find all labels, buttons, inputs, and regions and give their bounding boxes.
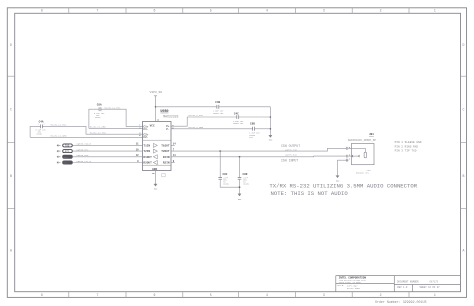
svg-text:Order Number: 329992-001US: Order Number: 329992-001US [375, 300, 426, 304]
svg-text:RS232_C2_NEG: RS232_C2_NEG [51, 135, 67, 138]
svg-text:V-: V- [166, 128, 170, 131]
svg-text:U0B0: U0B0 [160, 110, 168, 114]
wire RS232_C2_NEG to pin 5 [30, 136, 142, 138]
ground symbol jack sleeve [336, 176, 339, 178]
connector JB1 audio jack box [351, 144, 374, 165]
svg-text:15: 15 [152, 172, 155, 175]
transceiver R1 buffer [153, 155, 157, 159]
wire C4A to RS232_C2_POS to pin 4 [43, 126, 143, 134]
svg-text:UART0_TXD_R: UART0_TXD_R [77, 143, 92, 146]
jack pin 3 contact symbol [346, 155, 348, 158]
svg-text:T1IN: T1IN [143, 145, 150, 148]
op-amp U0B0 IC body MAX3232 [143, 122, 172, 171]
wire C8D bottom to ground [239, 179, 241, 194]
ground net labels [154, 138, 340, 201]
svg-text:GND: GND [152, 168, 157, 171]
svg-text:4: 4 [266, 293, 268, 297]
border zone ticks right [461, 76, 467, 208]
wire V+ pin 2 to RS232_V_POS line [171, 117, 237, 126]
ground symbol U0B0 [154, 184, 157, 186]
wire T2OUT pin 7 to jack ring [171, 148, 346, 151]
svg-text:A: A [10, 249, 12, 253]
svg-text:UART0_RXD: UART0_RXD [77, 154, 90, 157]
svg-text:R2OUT: R2OUT [143, 162, 152, 165]
note box near pin 15 [162, 174, 165, 177]
capacitor C8A body [99, 107, 101, 111]
ground symbol bypass caps [269, 135, 272, 137]
wire C4A left loop [30, 126, 40, 137]
svg-text:UART0_RXD: UART0_RXD [285, 154, 298, 157]
arrow in 1 [57, 144, 60, 146]
svg-text:RS232_C2_POS: RS232_C2_POS [90, 132, 106, 135]
border zone ticks bottom [69, 292, 409, 298]
wire ring inside jack [348, 148, 365, 152]
transceiver T1 buffer [153, 143, 157, 147]
svg-text:RS232_V_NEG: RS232_V_NEG [189, 126, 204, 129]
svg-text:3: 3 [323, 293, 325, 297]
svg-text:C8B: C8B [250, 122, 255, 125]
capacitor C4A body [41, 125, 43, 129]
arrow out 3 [57, 156, 60, 158]
svg-text:RS232_C1_POS: RS232_C1_POS [105, 107, 121, 110]
svg-text:6: 6 [153, 293, 155, 297]
svg-text:7: 7 [96, 9, 98, 13]
svg-text:GND: GND [269, 138, 273, 141]
svg-text:B: B [10, 174, 12, 178]
svg-text:T2OUT: T2OUT [161, 150, 170, 153]
jack contact chevron 2 [358, 155, 359, 157]
jack pin 1 contact symbol [346, 159, 348, 162]
svg-text:TX/RX RS-232 UTILIZING 3.5MM A: TX/RX RS-232 UTILIZING 3.5MM AUDIO CONNE… [269, 183, 417, 190]
wire down to capacitor C8D [239, 157, 241, 178]
wire C4B to ground drop [219, 106, 271, 108]
svg-text:T2IN: T2IN [143, 150, 150, 153]
svg-text:14: 14 [173, 143, 176, 146]
junction cap commons [239, 186, 241, 188]
wire V- pin 6 RS232_V_NEG line [171, 128, 253, 130]
connector port tag UART0_RXD_R [63, 155, 73, 159]
svg-text:7: 7 [96, 293, 98, 297]
svg-text:3: 3 [139, 126, 141, 129]
svg-text:1: 1 [349, 158, 351, 161]
jack plug barrel [364, 152, 367, 158]
wire GND pin 15 [155, 171, 157, 185]
arrow in 2 [57, 150, 60, 152]
svg-text:UART0_RTS: UART0_RTS [77, 148, 90, 151]
wire tip inside jack [348, 155, 359, 157]
svg-text:PIN 1 SLEEVE GND: PIN 1 SLEEVE GND [395, 141, 422, 144]
svg-text:NOTE: THIS IS NOT AUDIO: NOTE: THIS IS NOT AUDIO [271, 190, 349, 197]
border zone numbers top [41, 9, 436, 13]
svg-text:C: C [463, 108, 465, 112]
svg-text:R1IN: R1IN [163, 156, 170, 159]
wire RS232_C1_NEG to pin 3 [89, 127, 143, 129]
border zone ticks top [69, 8, 409, 14]
svg-text:2: 2 [380, 9, 382, 13]
svg-text:GND: GND [154, 187, 158, 190]
svg-text:REV 1.0: REV 1.0 [397, 286, 408, 289]
svg-text:JB1: JB1 [369, 133, 374, 136]
arrow out 4 [57, 162, 60, 164]
pin stub R2IN pin 8 [171, 162, 175, 164]
wire down to capacitor C8C [219, 151, 221, 177]
wire T1IN [73, 144, 143, 146]
wire C8A to RS232_C1_POS into pin 1 [101, 109, 143, 126]
svg-text:UART0_CTS_R: UART0_CTS_R [77, 160, 92, 163]
svg-text:V3P3_S0: V3P3_S0 [150, 91, 163, 94]
junction C8D on R1IN line [239, 156, 241, 158]
svg-text:1: 1 [434, 293, 436, 297]
svg-text:TITLE:: TITLE: [337, 284, 345, 287]
svg-text:8: 8 [41, 9, 43, 13]
svg-text:GND: GND [238, 198, 242, 201]
connector port tag UART0_TXD_R [63, 144, 73, 148]
svg-text:4: 4 [266, 9, 268, 13]
svg-text:B: B [463, 174, 465, 178]
svg-text:1: 1 [38, 123, 39, 125]
svg-text:5: 5 [210, 9, 212, 13]
wire C8A left loop [89, 109, 99, 128]
capacitor C8D body [238, 178, 242, 180]
capacitor C8B inline on V- line [253, 127, 255, 131]
svg-text:5: 5 [210, 293, 212, 297]
svg-text:C2-: C2- [143, 136, 148, 139]
svg-text:C0603 10%: C0603 10% [233, 122, 244, 125]
svg-text:R1OUT: R1OUT [143, 156, 152, 159]
capacitor C4B inline on VCC line [217, 105, 219, 109]
svg-text:5: 5 [139, 134, 141, 137]
connector port tag UART0_CTS_R [63, 161, 73, 165]
capacitor C4C inline on V+ line [237, 115, 239, 119]
svg-text:ISH INPUT: ISH INPUT [281, 158, 298, 162]
jack pin 2 contact symbol [346, 147, 348, 150]
junction V+ line at ground drop [270, 116, 272, 118]
svg-text:SHEET 16 OF 27: SHEET 16 OF 27 [420, 286, 441, 289]
svg-text:6: 6 [153, 9, 155, 13]
svg-text:UART0_TXD: UART0_TXD [285, 149, 298, 152]
svg-text:C4B: C4B [215, 101, 220, 104]
svg-text:MAX3232E: MAX3232E [163, 115, 178, 119]
wire R1IN pin 13 to jack tip [171, 155, 346, 158]
svg-text:C0402: C0402 [37, 133, 43, 136]
wire R2OUT [73, 162, 143, 164]
connector port tag UART0_RTS_R [63, 150, 73, 154]
transceiver R2 buffer [153, 161, 157, 165]
border zone ticks left [7, 76, 14, 208]
svg-text:RS232_C1_NEG: RS232_C1_NEG [90, 126, 106, 129]
jack contact chevron 1 [352, 155, 353, 157]
wire C8B to ground drop [255, 128, 271, 130]
transceiver T2 buffer [153, 149, 157, 153]
junction VCC rail [155, 106, 157, 108]
svg-text:C8A: C8A [97, 104, 102, 107]
svg-text:INTEL CORPORATION: INTEL CORPORATION [339, 277, 367, 280]
svg-text:D: D [10, 43, 12, 47]
svg-text:1: 1 [434, 9, 436, 13]
power symbol V3P3_S0 [154, 96, 157, 107]
wire VCC rail down to U0B0 pin 16 [155, 107, 157, 122]
svg-text:T1OUT: T1OUT [161, 145, 170, 148]
svg-text:GROUND SEL: GROUND SEL [356, 172, 370, 175]
wire C4C to ground drop [239, 116, 271, 118]
svg-text:C0402: C0402 [95, 116, 101, 119]
svg-text:A: A [463, 249, 465, 253]
svg-text:2: 2 [380, 293, 382, 297]
svg-text:R2IN: R2IN [163, 162, 170, 165]
border zone letters right [463, 43, 465, 253]
junction C8C on T2OUT line [219, 150, 221, 152]
svg-text:C: C [10, 108, 12, 112]
svg-text:C0402: C0402 [243, 183, 249, 186]
svg-text:TXD: TXD [65, 145, 70, 148]
wire sleeve pin 1 to ground [338, 160, 349, 175]
svg-text:PIN 3 TIP TXD: PIN 3 TIP TXD [395, 150, 417, 153]
junction V- line at ground drop [270, 128, 272, 130]
svg-text:3: 3 [323, 9, 325, 13]
border zone numbers bottom [41, 293, 436, 297]
pin stub T1OUT pin 14 [171, 144, 175, 146]
svg-text:VCC: VCC [150, 124, 155, 127]
svg-text:DOCUMENT NUMBER: DOCUMENT NUMBER [397, 281, 419, 284]
svg-text:D: D [463, 43, 465, 47]
border zone letters left [10, 43, 12, 253]
svg-text:6: 6 [172, 127, 174, 130]
svg-text:2: 2 [43, 123, 44, 125]
svg-text:AUDIOJACK_4PORT_SP: AUDIOJACK_4PORT_SP [348, 139, 376, 142]
wire C8C bottom [220, 179, 239, 187]
capacitor C8C body [218, 178, 222, 180]
svg-text:RS232 UART: RS232 UART [347, 287, 361, 290]
svg-text:RTS: RTS [65, 150, 70, 153]
ground symbol ESD caps [238, 194, 241, 196]
wire R1OUT [73, 156, 143, 158]
svg-text:PIN 2 RING RXD: PIN 2 RING RXD [395, 145, 419, 148]
svg-text:RS232_V_POS: RS232_V_POS [189, 114, 204, 117]
svg-text:C1-: C1- [143, 128, 148, 131]
svg-text:C0603 10%: C0603 10% [213, 112, 224, 115]
svg-text:8: 8 [41, 293, 43, 297]
wire T2IN [73, 150, 143, 152]
wire common ground drop for bypass caps [269, 107, 271, 136]
wire VCC to bypass cap row [156, 106, 217, 108]
title block frame [336, 276, 461, 292]
svg-text:G87173: G87173 [430, 281, 439, 284]
svg-text:RS232_C2_POS: RS232_C2_POS [51, 124, 67, 127]
svg-text:C4C: C4C [234, 113, 239, 116]
svg-text:C0402: C0402 [223, 183, 229, 186]
